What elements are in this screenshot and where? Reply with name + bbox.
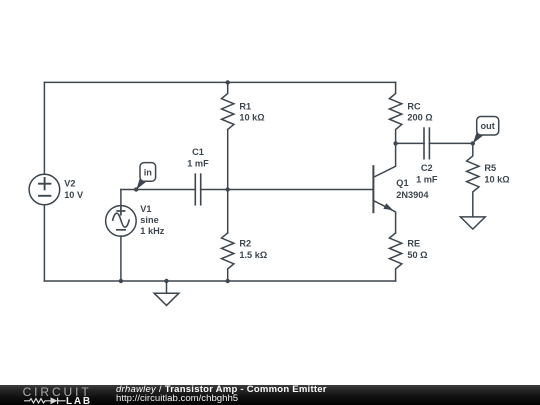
svg-text:50 Ω: 50 Ω <box>407 250 427 260</box>
wire left rail upper (V+ to V2) <box>43 82 45 174</box>
net flag in <box>136 163 155 190</box>
resistor R5 <box>467 143 479 217</box>
svg-text:R1: R1 <box>239 101 251 111</box>
svg-text:RE: RE <box>407 239 420 249</box>
ground (bottom rail) <box>154 281 179 305</box>
resistor R1 <box>222 82 234 129</box>
node dot C1/R1/R2 junction <box>226 187 230 191</box>
svg-text:C2: C2 <box>421 163 433 173</box>
svg-text:V1: V1 <box>140 204 151 214</box>
footer url <box>116 395 238 404</box>
node dot ground tap <box>164 279 168 283</box>
node dot in anchor <box>134 187 138 191</box>
voltage source V2 <box>29 174 60 205</box>
resistor RC <box>389 82 401 143</box>
capacitor C1 <box>195 174 200 205</box>
svg-text:10 kΩ: 10 kΩ <box>239 113 264 123</box>
wire mid left (V1/in to C1) <box>121 189 195 191</box>
label R5 value <box>484 163 509 184</box>
svg-text:R5: R5 <box>484 163 496 173</box>
node dot R2 bottom <box>226 279 230 283</box>
wire left rail lower (V2 to ground rail) <box>43 205 45 281</box>
node dot out anchor <box>471 141 475 145</box>
svg-text:1 mF: 1 mF <box>416 174 438 184</box>
svg-text:in: in <box>144 168 153 178</box>
wire C2 left <box>396 142 424 144</box>
wire V1 top riser <box>120 190 122 206</box>
svg-text:out: out <box>481 121 495 131</box>
wire V1 bottom <box>120 236 122 281</box>
sine source V1 <box>106 206 137 237</box>
label V1 value <box>140 204 164 236</box>
svg-text:Q1: Q1 <box>396 178 408 188</box>
label V2 value <box>64 179 84 200</box>
wire top rail <box>44 81 395 83</box>
svg-text:1.5 kΩ: 1.5 kΩ <box>239 250 267 260</box>
svg-text:1 mF: 1 mF <box>187 159 209 169</box>
svg-text:R2: R2 <box>239 239 251 249</box>
svg-text:sine: sine <box>140 215 158 225</box>
svg-text:200 Ω: 200 Ω <box>407 113 432 123</box>
svg-text:RC: RC <box>407 101 421 111</box>
footer bar <box>0 385 540 405</box>
transistor Q1 <box>373 143 395 233</box>
svg-text:LAB: LAB <box>66 396 92 405</box>
node dot V1 bottom <box>119 279 123 283</box>
wire mid right (C1 to Q1 base) <box>201 189 374 191</box>
node dot R1 top <box>226 80 230 84</box>
label RC value <box>407 101 432 122</box>
net flag out <box>473 117 499 144</box>
svg-text:10 V: 10 V <box>64 190 84 200</box>
footer title <box>116 386 327 395</box>
label C2 value <box>416 163 438 184</box>
resistor RE <box>389 233 401 281</box>
node dot RC/C2/collector <box>393 141 397 145</box>
svg-text:10 kΩ: 10 kΩ <box>484 174 509 184</box>
wire bottom rail <box>44 280 395 282</box>
label R2 value <box>239 239 267 260</box>
label Q1 value <box>396 178 429 200</box>
label RE value <box>407 239 427 260</box>
ground (below R5) <box>460 217 485 229</box>
svg-text:2N3904: 2N3904 <box>396 190 429 200</box>
wire C2 right to out node <box>429 142 472 144</box>
CircuitLab logo <box>0 385 110 405</box>
resistor R2 <box>222 233 234 281</box>
wire R2 top lead from mid rail <box>227 190 229 233</box>
label C1 value <box>187 147 209 168</box>
svg-text:V2: V2 <box>64 179 75 189</box>
label R1 value <box>239 101 264 122</box>
svg-text:C1: C1 <box>192 147 204 157</box>
capacitor C2 <box>424 128 429 159</box>
wire R1 bottom lead to mid rail <box>227 130 229 190</box>
svg-text:1 kHz: 1 kHz <box>140 226 164 236</box>
